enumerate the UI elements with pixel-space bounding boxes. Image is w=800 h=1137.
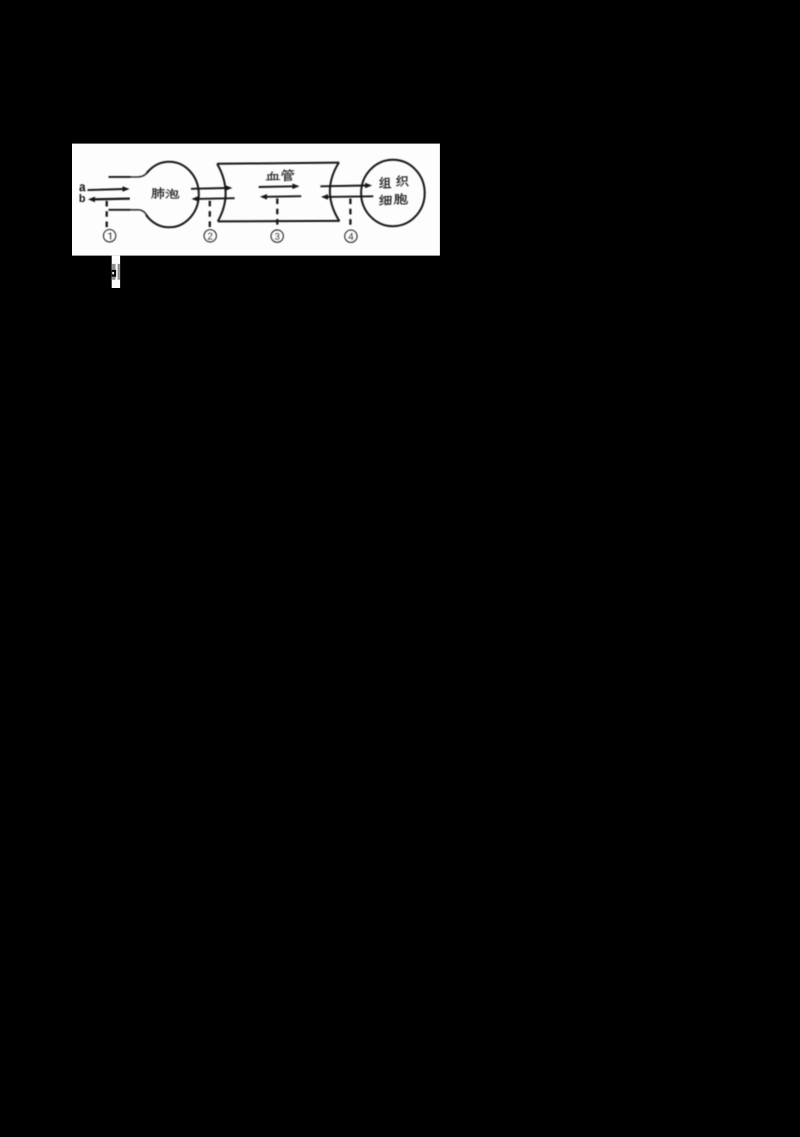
- blood vessel bottom wall: [218, 220, 340, 223]
- airway tube top wall: [109, 171, 149, 177]
- torn white strip below panel: [112, 256, 120, 288]
- label b: [80, 194, 85, 202]
- dashed leader 2: [209, 201, 211, 229]
- circled number 3: [271, 230, 283, 242]
- arrow cell-to-vessel (leftward): [327, 195, 374, 198]
- text 组: [379, 177, 391, 188]
- dashed leader 3: [276, 198, 278, 228]
- text 细: [379, 195, 392, 206]
- alveolus mouth gap eraser: [131, 173, 147, 216]
- blood vessel right edge (concave): [330, 163, 339, 221]
- white scan panel: [72, 144, 440, 256]
- blood vessel left edge (concave): [217, 164, 226, 222]
- arrow vessel-to-alveolus (CO2, leftward): [197, 197, 235, 200]
- arrow in vessel (rightward): [259, 185, 294, 188]
- text 管: [281, 169, 294, 181]
- text 肺: [151, 187, 165, 199]
- label a: [79, 184, 85, 191]
- circled number 1: [104, 230, 116, 242]
- strip grey mark right: [118, 264, 120, 280]
- text 泡: [166, 189, 180, 199]
- tissue cell circle (组织细胞): [361, 160, 425, 226]
- arrow alveolus-to-vessel (O2, rightward): [191, 187, 227, 190]
- strip grey mark left: [112, 264, 116, 280]
- text 血: [266, 172, 281, 181]
- arrow b (exhale, leftward): [94, 197, 130, 200]
- circled number 2: [204, 230, 216, 242]
- strip white notch: [112, 272, 114, 274]
- dashed leader 1: [106, 201, 108, 228]
- airway tube bottom wall: [109, 210, 148, 217]
- arrow vessel-to-cell (rightward): [320, 185, 366, 188]
- strip black blob: [112, 270, 116, 277]
- blood vessel top wall: [217, 163, 339, 164]
- circled number 4: [345, 230, 357, 242]
- arrow in vessel (leftward): [266, 195, 302, 198]
- alveolus circle (肺泡): [140, 162, 199, 228]
- text 织: [396, 175, 408, 186]
- text 胞: [394, 193, 408, 204]
- arrow a (inhale, rightward): [88, 189, 125, 190]
- dashed leader 4: [349, 199, 351, 229]
